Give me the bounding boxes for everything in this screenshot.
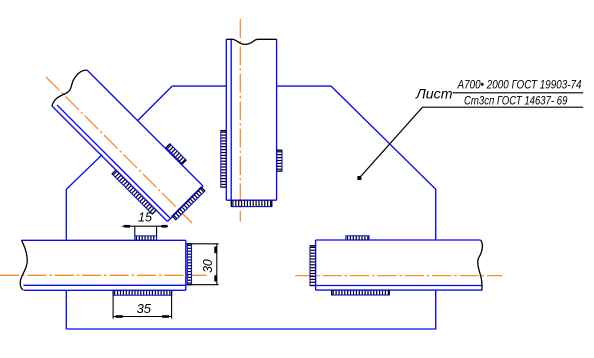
weld seam at end cut of diagonal bar [172,187,205,220]
weld tab on top of right bar [346,236,369,240]
weld seam upper edge of diagonal bar [166,144,186,164]
weld tab on top of left bar [135,236,157,240]
svg-text:30: 30 [201,259,215,273]
weld seam at left end of right bar [310,246,316,286]
weld seam left of vertical bar [221,131,227,188]
weld seam right of vertical bar [277,150,282,171]
right bar outline [316,240,483,290]
leader line [359,107,422,178]
dimension 30 [187,244,219,285]
svg-text:15: 15 [138,211,152,225]
right bar centerline [295,275,502,277]
weld seam lower edge of diagonal bar [112,170,156,214]
left bar centerline [0,274,207,276]
right bar break line [478,240,483,290]
left bar outline [22,240,186,290]
diagonal bar break line [52,70,87,106]
svg-text:А700• 2000 ГОСТ 19903-74: А700• 2000 ГОСТ 19903-74 [457,78,582,92]
leader shelf [423,106,584,108]
diagonal bar outline [52,70,203,222]
weld seam at right end of left bar [187,244,191,285]
svg-text:Ст3сп ГОСТ 14637- 69: Ст3сп ГОСТ 14637- 69 [464,96,568,108]
weld seam below right bar [332,290,390,295]
svg-text:35: 35 [137,302,151,316]
leader dot [357,176,361,180]
svg-text:Лист: Лист [415,86,453,102]
fraction bar [453,92,584,94]
weld seam below left bar [113,290,172,295]
gusset plate outline [66,86,435,329]
weld seam below vertical bar [231,200,271,206]
vertical bar break line [226,39,276,44]
left bar break line [20,240,27,290]
diagonal bar centerline [46,77,192,223]
dimension 35 [113,295,172,318]
dimension 15 [122,226,168,236]
vertical bar centerline [239,19,241,222]
vertical bar outline [226,39,276,200]
